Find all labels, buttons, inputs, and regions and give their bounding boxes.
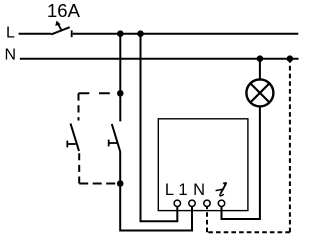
circuit breaker actuator arrow [58,24,62,31]
wire dashed left branch lower [78,151,80,184]
wire L line right segment [73,33,299,35]
junction dot optional branch bottom [117,180,124,187]
wire from L down to terminal L [141,34,178,222]
wire dashed top of optional push-button branch [79,92,121,94]
terminal label switched-live symbol [216,182,227,196]
wire dashed left branch upper [78,93,80,120]
junction dot on L line (terminal L feed) [137,30,144,37]
wire N line [20,58,299,60]
wire L line left segment [19,33,52,35]
junction dot on N line (dashed N return) [287,55,294,62]
push-button S1 blade (optional, dashed branch) [71,124,80,152]
svg-text:N: N [5,46,17,63]
junction dot on L line (push-button feed) [117,30,124,37]
svg-text:1: 1 [178,181,187,199]
device box U1 [158,119,248,211]
wire from L to push-button S2 (upper segment) [119,34,121,122]
junction dot optional branch top [117,90,124,97]
circuit breaker fixed contact bar [71,30,73,37]
circuit breaker 16A blade [51,27,69,34]
junction dot on N line (lamp) [257,55,264,62]
wire from lamp to switched-live terminal [222,106,260,219]
wire from N line down to lamp [259,59,261,80]
wire dashed N return from terminal N to N line [206,207,208,233]
terminal circle switched-live [218,200,224,206]
svg-text:L: L [165,181,174,199]
terminal circle L [174,200,180,206]
push-button S2 blade [112,124,120,152]
terminal circle N [204,200,210,206]
terminal circle 1 [189,200,195,206]
push-button S2 actuator [109,142,117,144]
svg-text:16A: 16A [47,0,81,21]
wire from push-button S2 down to terminal 1 [120,152,192,231]
svg-text:L: L [6,25,15,42]
push-button S1 actuator [67,143,75,145]
wire dashed bottom of optional branch [79,183,119,185]
svg-text:N: N [193,181,205,199]
lamp E1 [246,79,273,106]
